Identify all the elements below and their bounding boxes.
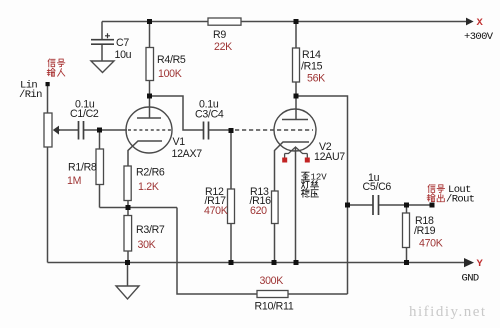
svg-text:/Rin: /Rin [19,89,42,101]
svg-text:22K: 22K [214,41,232,53]
svg-text:Y: Y [477,258,484,270]
svg-text:V1: V1 [173,136,186,148]
svg-text:56K: 56K [307,73,325,85]
svg-text:+300V: +300V [464,31,494,43]
svg-text:470K: 470K [204,205,228,217]
svg-text:R1/R8: R1/R8 [68,162,97,174]
svg-text:470K: 470K [419,238,443,250]
svg-text:100K: 100K [158,68,182,80]
svg-text:620: 620 [250,205,267,217]
svg-text:R3/R7: R3/R7 [136,224,165,236]
svg-text:1.2K: 1.2K [138,181,159,193]
svg-text:C1/C2: C1/C2 [70,108,99,120]
svg-text:C3/C4: C3/C4 [195,109,224,121]
svg-text:hifidiy.net: hifidiy.net [409,304,487,320]
svg-text:300K: 300K [260,275,284,287]
svg-text:R2/R6: R2/R6 [136,167,165,179]
svg-text:C5/C6: C5/C6 [363,181,392,193]
svg-text:10u: 10u [115,49,132,61]
svg-text:/R15: /R15 [301,61,323,73]
svg-text:X: X [477,17,484,29]
svg-text:C7: C7 [116,37,129,49]
svg-text:R9: R9 [213,29,226,41]
svg-text:12AX7: 12AX7 [172,148,203,160]
svg-text:12AU7: 12AU7 [314,151,345,163]
svg-text:/Rout: /Rout [446,194,475,206]
svg-text:GND: GND [462,273,479,285]
svg-text:R10/R11: R10/R11 [255,301,294,313]
svg-text:30K: 30K [138,239,156,251]
svg-text:/R19: /R19 [414,225,436,237]
svg-text:R4/R5: R4/R5 [157,54,186,66]
svg-text:12V: 12V [311,173,328,183]
svg-text:1M: 1M [67,175,81,187]
svg-text:R14: R14 [302,49,321,61]
